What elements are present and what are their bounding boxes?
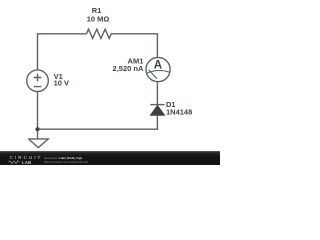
svg-text:2,520 nA: 2,520 nA: [113, 64, 144, 73]
svg-text:A: A: [154, 60, 162, 72]
svg-text:LAB: LAB: [22, 160, 32, 165]
svg-text:10 MΩ: 10 MΩ: [87, 15, 110, 24]
svg-text:1N4148: 1N4148: [166, 108, 192, 117]
svg-text:10 V: 10 V: [54, 78, 69, 87]
